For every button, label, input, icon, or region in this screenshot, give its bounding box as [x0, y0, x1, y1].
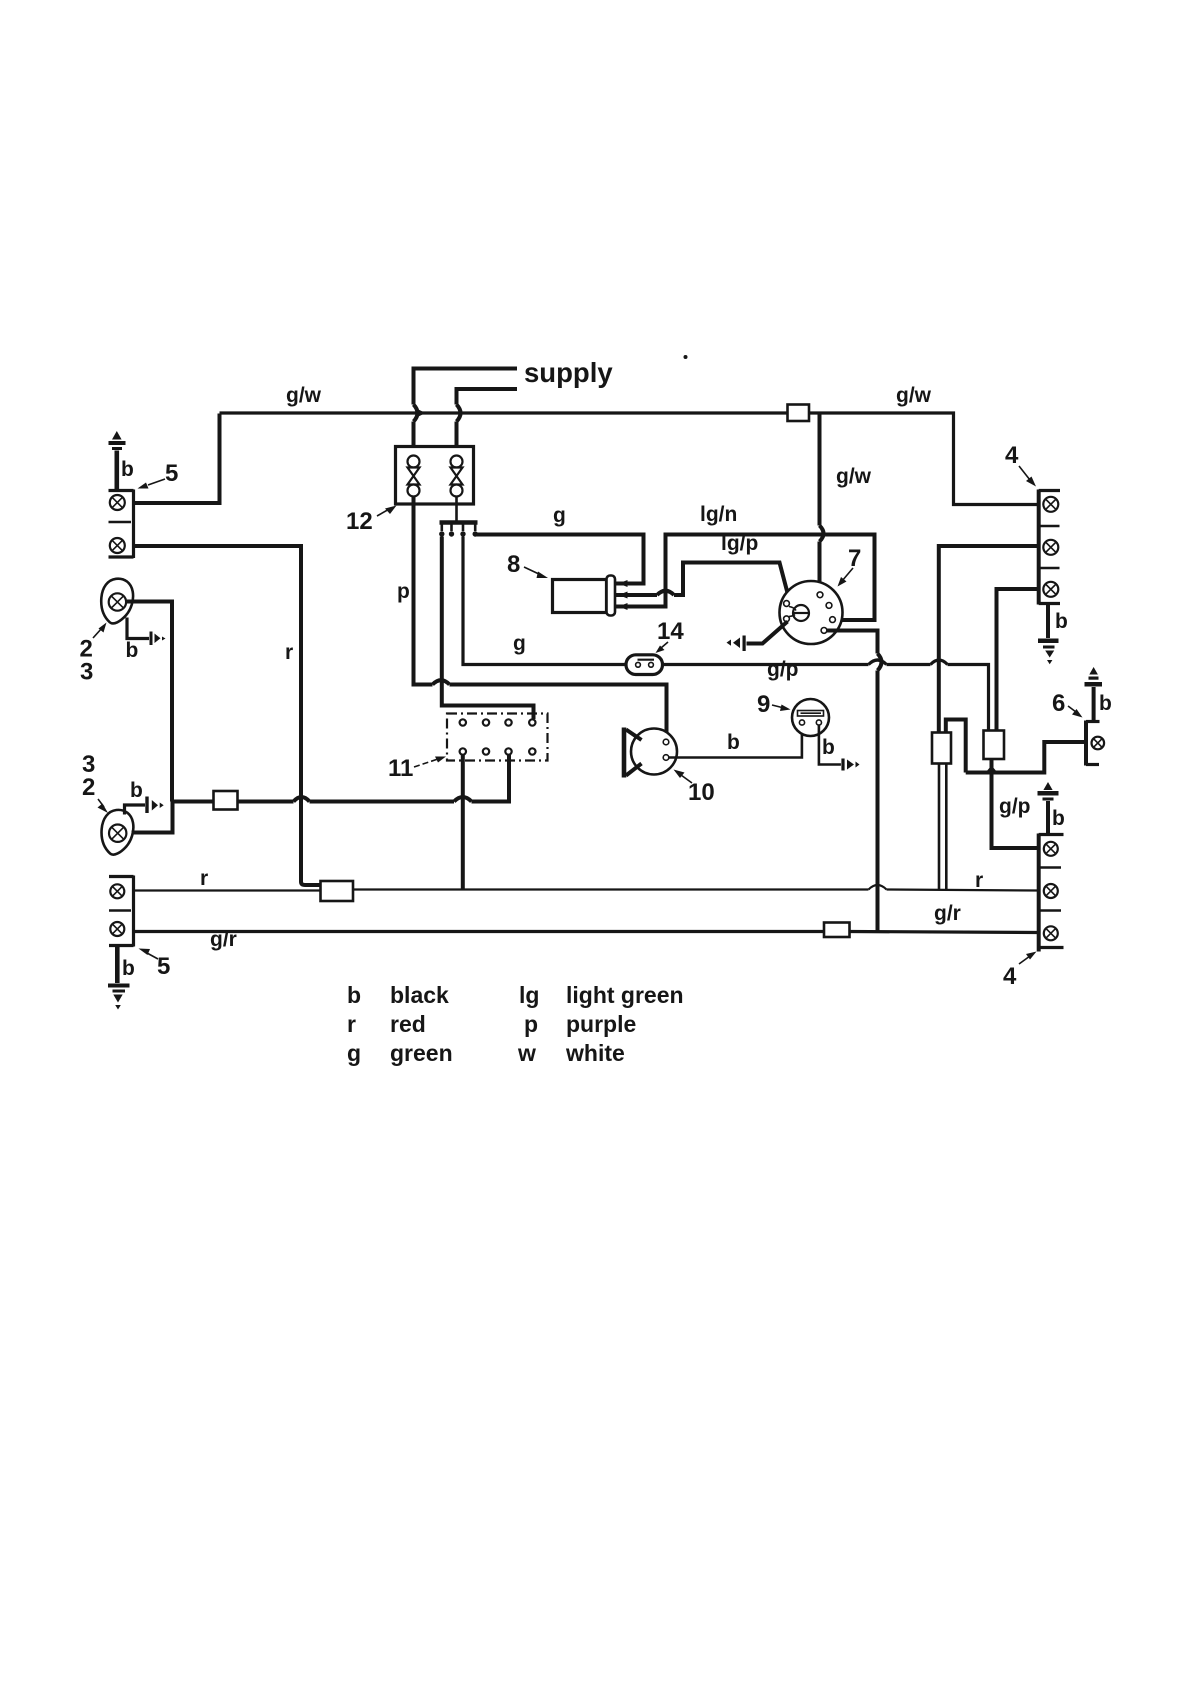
in-line unit 14	[626, 655, 663, 675]
ink speck	[684, 355, 688, 359]
wire block4TR middle cell down to connector	[939, 546, 1038, 733]
wire g from bar to coil top pin	[475, 535, 643, 584]
flasher unit 9	[792, 699, 829, 736]
leader arrow 12	[377, 506, 397, 517]
vertical connector pair right	[984, 731, 1005, 760]
svg-text:6: 6	[1052, 690, 1065, 717]
junction bar below fuse	[439, 496, 478, 537]
leader arrow 14	[656, 642, 669, 653]
svg-text:w: w	[517, 1040, 536, 1066]
svg-text:g/r: g/r	[210, 928, 237, 951]
leader arrow 11	[414, 757, 446, 768]
svg-text:g/p: g/p	[999, 795, 1031, 818]
wire branch to lamp6 feed	[946, 720, 966, 773]
svg-text:12: 12	[346, 508, 373, 535]
wire supply lower stub	[457, 389, 518, 455]
svg-text:lg/p: lg/p	[721, 532, 758, 555]
inline connector on g/r wire	[824, 923, 850, 938]
wire p from fuse to horn	[414, 496, 667, 740]
leader arrow 7	[838, 568, 854, 587]
leader arrow 6	[1068, 706, 1083, 718]
wire b horn to flasher	[669, 726, 802, 758]
wire block5TL lower cell to r vertical	[134, 546, 321, 885]
svg-text:4: 4	[1003, 963, 1017, 990]
svg-text:5: 5	[165, 460, 178, 487]
svg-text:4: 4	[1005, 442, 1019, 469]
coil cap	[607, 576, 616, 616]
connector block 4 top-right	[1039, 490, 1060, 605]
leader arrow 4 bottom-right	[1019, 952, 1037, 965]
svg-text:g: g	[513, 632, 526, 655]
connector block 5 bottom-left	[109, 876, 134, 947]
wire junction to connector 11	[172, 755, 509, 802]
wire supply upper stub	[414, 369, 518, 456]
svg-text:b: b	[727, 731, 740, 754]
wires below left vertical connector	[939, 764, 946, 890]
leader arrow 5 top-left	[138, 479, 166, 489]
connector symbol lamp2 b	[150, 632, 166, 646]
coil pin arrowheads	[619, 580, 628, 610]
svg-text:red: red	[390, 1011, 426, 1037]
leader arrow 2 bottom lamp	[98, 799, 109, 813]
wire flasher to b connector	[819, 726, 841, 765]
svg-text:10: 10	[688, 779, 715, 806]
vertical connector pair left	[932, 733, 951, 764]
leader arrow 4 top-right	[1019, 466, 1036, 487]
horn 10	[624, 728, 677, 778]
wire 11 pin to r wire	[461, 755, 465, 889]
wire distributor ground	[747, 622, 788, 644]
svg-text:b: b	[347, 982, 361, 1008]
wire g/w from connector 5 to fuse area	[134, 414, 220, 504]
fuse left	[408, 456, 420, 497]
leader arrow 2 top lamp	[93, 623, 107, 639]
svg-text:r: r	[285, 641, 293, 664]
svg-text:7: 7	[848, 545, 861, 572]
svg-text:purple: purple	[566, 1011, 636, 1037]
inline connector on g/w	[788, 405, 810, 422]
svg-text:g/w: g/w	[836, 465, 872, 488]
leader arrow 9	[772, 705, 791, 712]
connector block 11	[447, 714, 548, 761]
svg-text:3: 3	[80, 659, 93, 686]
svg-text:lg: lg	[519, 982, 539, 1008]
svg-text:11: 11	[388, 755, 413, 782]
wire lg/p coil middle pin to distributor	[615, 563, 790, 601]
wire g/r long	[134, 932, 1038, 933]
wire from bar pin1 to connector 11	[442, 537, 534, 720]
wire lamp2 to junction	[127, 602, 172, 802]
svg-text:light green: light green	[566, 982, 684, 1008]
connector block 4 bottom-right	[1039, 834, 1064, 952]
wire r long to connector 4	[353, 885, 1038, 891]
wire g continuing right of 14	[663, 660, 989, 731]
leader arrow 8	[524, 567, 548, 578]
connector symbol lamp3 b	[145, 797, 163, 814]
wire distributor lower pin to g/r	[827, 631, 882, 932]
svg-text:g: g	[347, 1040, 361, 1066]
wire r thin from block5BL	[134, 889, 321, 891]
svg-text:b: b	[126, 639, 139, 662]
svg-text:2: 2	[82, 774, 95, 801]
svg-text:p: p	[397, 580, 410, 603]
svg-text:14: 14	[657, 618, 684, 645]
leader arrow 10	[674, 770, 693, 784]
svg-text:b: b	[822, 736, 835, 759]
wire g/w branch to distributor	[820, 413, 824, 592]
side lamp 2 top	[101, 579, 133, 624]
wire block4TR bottom cell down	[997, 589, 1038, 731]
svg-text:8: 8	[507, 551, 520, 578]
lamp holder 6	[1086, 721, 1104, 766]
svg-text:5: 5	[157, 953, 170, 980]
ground bottom-left	[108, 947, 130, 1010]
wire junction to lamp 6	[966, 742, 1086, 773]
svg-text:b: b	[1099, 692, 1112, 715]
ground top-left	[109, 431, 126, 489]
ground lamp 6	[1085, 667, 1103, 721]
side lamp 3 bottom	[102, 810, 134, 855]
wire lamp3 to junction	[132, 802, 173, 833]
junction fillet	[986, 766, 998, 773]
svg-text:b: b	[121, 458, 134, 481]
svg-text:b: b	[1055, 610, 1068, 633]
ground above block4BR	[1038, 782, 1059, 834]
inline connector on r wire	[321, 881, 354, 901]
svg-text:b: b	[1052, 807, 1065, 830]
wire g/w main horizontal	[220, 411, 788, 414]
svg-text:supply: supply	[524, 357, 613, 388]
svg-text:b: b	[122, 957, 135, 980]
svg-text:g/w: g/w	[896, 384, 932, 407]
distributor 7	[780, 581, 843, 644]
wire lamp2 b stub	[127, 618, 149, 639]
wire g/p down to block4BR	[992, 760, 1038, 849]
fuse right	[451, 456, 463, 497]
svg-text:9: 9	[757, 691, 770, 718]
ignition coil 8 body	[553, 580, 607, 613]
inline connector on lamp wire	[214, 791, 238, 810]
ground above block4TR bottom	[1038, 605, 1059, 665]
svg-text:black: black	[390, 982, 449, 1008]
wire g from bar pin3 down and right through 14	[463, 537, 626, 665]
svg-text:lg/n: lg/n	[700, 503, 737, 526]
svg-text:r: r	[347, 1011, 356, 1037]
connector block 5 top-left	[109, 490, 134, 559]
arrowhead on g/w line	[417, 409, 426, 417]
connector symbol flasher b	[841, 759, 859, 771]
svg-text:white: white	[565, 1040, 625, 1066]
connector symbol distributor ground	[727, 636, 746, 652]
svg-text:g/r: g/r	[934, 902, 961, 925]
fuse unit 12 box	[396, 447, 474, 505]
svg-text:green: green	[390, 1040, 453, 1066]
svg-text:r: r	[975, 869, 983, 892]
svg-text:g/w: g/w	[286, 384, 322, 407]
svg-text:r: r	[200, 867, 208, 890]
svg-text:g: g	[553, 504, 566, 527]
wire lamp3 b stub	[125, 805, 146, 815]
leader arrow 5 bottom-left	[139, 949, 159, 960]
svg-text:g/p: g/p	[767, 658, 799, 681]
wire g/w right to connector 4	[810, 413, 1038, 505]
wire lg/n coil bottom pin to distributor	[615, 535, 875, 621]
svg-text:p: p	[524, 1011, 538, 1037]
svg-text:b: b	[130, 779, 143, 802]
